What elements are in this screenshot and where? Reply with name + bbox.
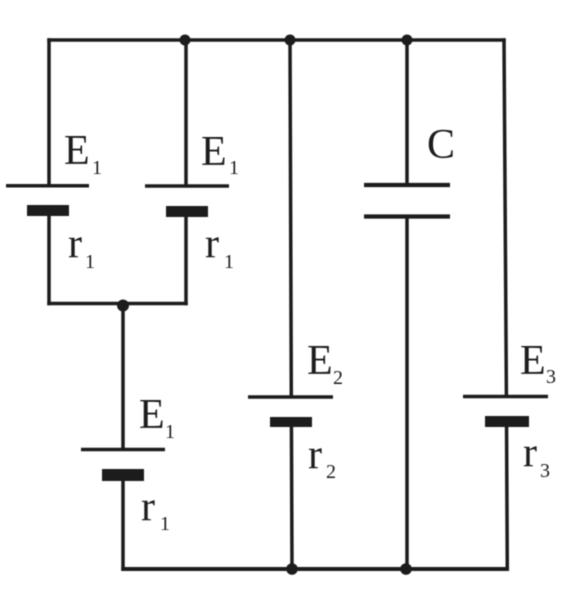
svg-text:r: r (523, 430, 537, 476)
svg-text:3: 3 (546, 366, 556, 388)
svg-text:1: 1 (92, 157, 102, 179)
svg-text:2: 2 (326, 461, 336, 483)
svg-text:E: E (64, 128, 90, 174)
svg-text:r: r (141, 484, 155, 530)
svg-text:2: 2 (333, 367, 343, 389)
svg-text:3: 3 (540, 460, 550, 482)
svg-text:1: 1 (160, 513, 170, 535)
svg-text:r: r (68, 221, 82, 267)
svg-text:1: 1 (165, 421, 175, 443)
svg-text:1: 1 (229, 157, 239, 179)
svg-text:r: r (205, 221, 219, 267)
svg-text:C: C (427, 122, 455, 168)
svg-text:r: r (308, 432, 322, 478)
svg-text:1: 1 (85, 251, 95, 273)
svg-text:E: E (139, 392, 165, 438)
svg-text:E: E (201, 129, 227, 175)
svg-text:E: E (307, 338, 333, 384)
svg-text:1: 1 (224, 251, 234, 273)
svg-text:E: E (520, 338, 546, 384)
